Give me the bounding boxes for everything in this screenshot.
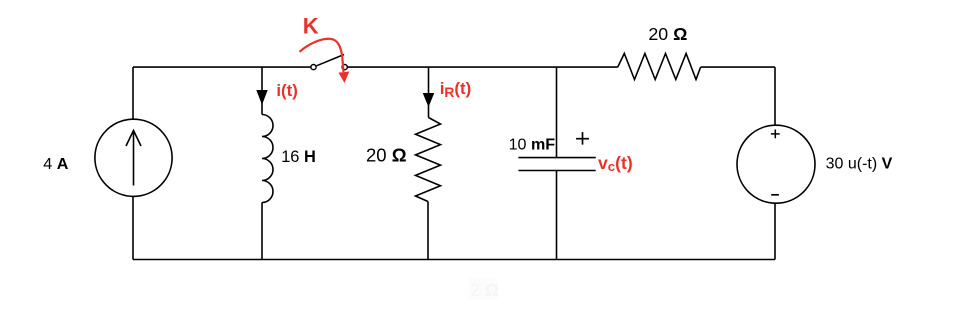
voltage source V1 — [737, 125, 815, 203]
wire capacitor branch bottom — [556, 171, 558, 260]
wire resistor branch bottom — [427, 202, 429, 260]
capacitor C1 10 mF — [518, 158, 595, 171]
resistor R2 20 ohm horizontal — [618, 54, 701, 80]
wire top right (top resistor to right rail) — [701, 66, 775, 68]
plus sign capacitor polarity — [576, 132, 589, 145]
wire inductor branch top — [261, 67, 263, 114]
svg-text:i(t): i(t) — [276, 81, 297, 100]
current source I1 — [95, 119, 172, 196]
current arrow iR(t) — [424, 94, 434, 106]
svg-text:20 Ω: 20 Ω — [366, 145, 407, 166]
svg-text:16 H: 16 H — [281, 148, 316, 166]
switch K contact left — [311, 65, 316, 70]
wire top middle (switch to top resistor) — [347, 66, 617, 68]
switch K actuation arrow (red) — [300, 39, 350, 83]
current arrow i(t) — [257, 91, 267, 104]
svg-text:K: K — [303, 13, 319, 38]
resistor R1 20 ohm vertical — [416, 118, 441, 202]
svg-text:vc(t): vc(t) — [598, 153, 633, 174]
wire right rail top — [774, 67, 776, 125]
wire right rail bottom — [774, 203, 776, 260]
svg-text:10 mF: 10 mF — [509, 135, 556, 153]
wire capacitor branch top — [556, 67, 558, 158]
svg-text:4 A: 4 A — [43, 155, 68, 173]
svg-text:2 Ω: 2 Ω — [470, 280, 499, 300]
wire left rail top — [132, 67, 134, 120]
wire left rail bottom — [132, 196, 134, 259]
ghost label 2 ohm (faint) — [469, 278, 500, 301]
wire inductor branch bottom — [261, 203, 263, 260]
svg-text:20 Ω: 20 Ω — [648, 24, 687, 44]
svg-text:30 u(-t) V: 30 u(-t) V — [826, 156, 893, 173]
inductor L1 16 H — [262, 115, 273, 203]
wire top left (node A to switch) — [133, 66, 311, 68]
switch K blade — [317, 55, 345, 66]
switch K contact right — [342, 65, 347, 70]
wire bottom rail — [133, 259, 775, 261]
wire resistor branch top — [428, 67, 430, 117]
